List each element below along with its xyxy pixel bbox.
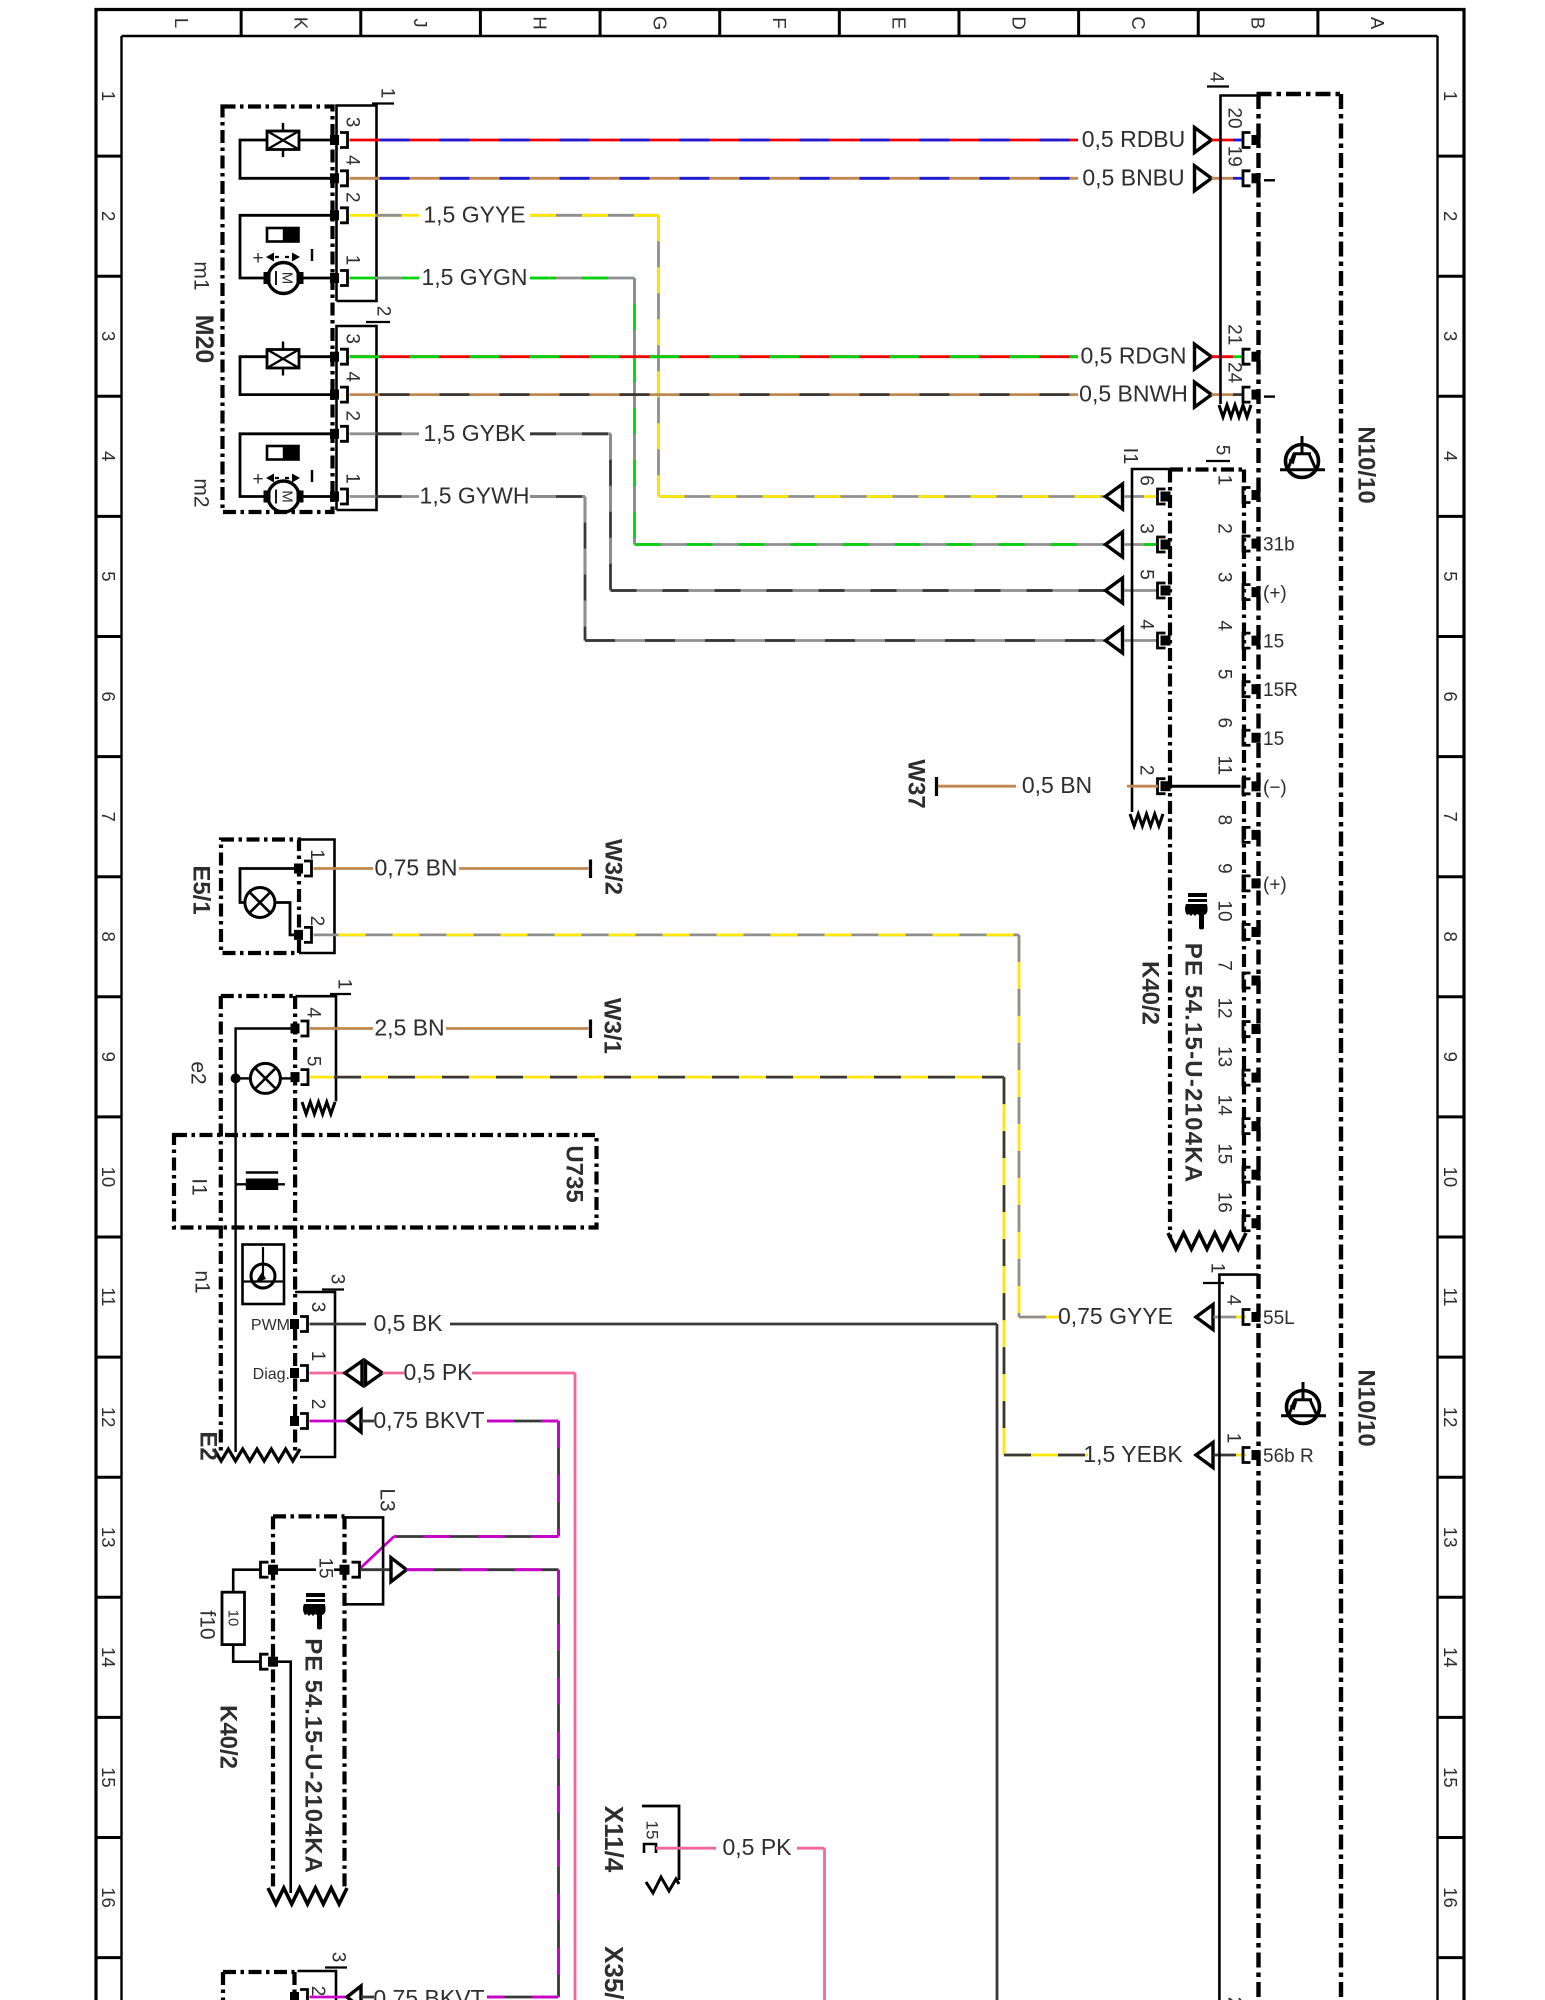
svg-text:I1: I1 [1119, 448, 1141, 465]
N10/10 pin 20 contact [1252, 135, 1261, 145]
svg-text:16: 16 [98, 1887, 119, 1908]
wire 0,5 RDBU from M20.1 pin3 to N10/10 pin20 [350, 139, 1079, 142]
N10/10 component box top edge [1257, 92, 1344, 96]
N10/10 pin 55L contact [1252, 1312, 1261, 1322]
svg-text:L3: L3 [376, 1488, 399, 1511]
M20 pin 4 contact at y=394.6 [330, 390, 339, 400]
svg-text:8: 8 [1440, 932, 1461, 942]
X11/4 connector symbol [642, 1806, 679, 1880]
svg-text:X11/4: X11/4 [599, 1806, 629, 1873]
svg-text:19: 19 [1224, 146, 1245, 167]
border column divider 9 [1197, 10, 1200, 37]
svg-text:0,5 RDBU: 0,5 RDBU [1082, 126, 1186, 152]
border column divider 4 [599, 10, 602, 37]
I1 pin 3 contact [1161, 540, 1171, 550]
n1 regulator housing [243, 1245, 285, 1305]
svg-text:1,5 GYGN: 1,5 GYGN [421, 264, 527, 290]
M20 pin 3 contact at y=356.7 [330, 352, 339, 362]
wire 0,75 BKVT continuation from L3 pin15 down to heater unit [360, 1568, 391, 1571]
border row divider 15 [96, 1836, 122, 1839]
I1 pin 5 contact [1161, 586, 1171, 596]
ground point W3/1 terminal [589, 1020, 592, 1039]
K40/2 pin 10 contact to N10/10 [1252, 927, 1261, 937]
N10/10 connector 1 housing (lower) [1219, 1275, 1258, 2000]
L3 connector housing [345, 1517, 384, 1604]
svg-text:H: H [530, 16, 551, 29]
svg-text:9: 9 [98, 1052, 119, 1062]
svg-text:Diag.: Diag. [253, 1366, 290, 1383]
K40/2 pin 5 contact to N10/10 [1252, 684, 1261, 694]
junction node at e2 lamp [231, 1073, 241, 1083]
border column divider 8 [1077, 10, 1080, 37]
border row divider 3 [96, 395, 122, 398]
connector 4 number [1207, 85, 1229, 87]
I1 torn end [1130, 814, 1163, 826]
svg-text:m1: m1 [190, 261, 213, 290]
e2 lamp symbol [250, 1063, 280, 1093]
wire 0,5 PK from E2 Diag pin [310, 1372, 346, 1375]
svg-text:4: 4 [303, 1007, 324, 1018]
svg-text:0,75 BN: 0,75 BN [374, 855, 457, 881]
connector 4 torn end [1219, 405, 1251, 417]
M20 pin 3 contact at y=140 [330, 135, 339, 145]
svg-text:E2: E2 [195, 1431, 222, 1460]
svg-text:(+): (+) [1263, 583, 1287, 604]
svg-text:11: 11 [1440, 1287, 1461, 1306]
svg-text:55L: 55L [1263, 1308, 1295, 1329]
diagnostic double arrow [345, 1361, 362, 1385]
svg-text:14: 14 [98, 1647, 119, 1668]
wire 1,5 GYWH from M20.2 pin1 to I1 pin4 [350, 495, 420, 498]
partial pin 2 contact [290, 1992, 299, 2000]
svg-text:n1: n1 [191, 1270, 214, 1293]
svg-text:0,5 BNWH: 0,5 BNWH [1079, 381, 1188, 407]
svg-text:4: 4 [1206, 72, 1227, 83]
wire 0,5 BNBU from M20.1 pin4 to N10/10 pin19 [350, 177, 1079, 180]
border column divider 2 [359, 10, 362, 37]
K40/2 (right) connector 5 number [1206, 460, 1230, 462]
partial connector housing [298, 1971, 337, 2000]
svg-text:2: 2 [1136, 765, 1157, 776]
svg-text:J: J [410, 18, 431, 27]
m1 heater element (X box) [267, 131, 299, 150]
svg-text:10: 10 [1214, 900, 1235, 921]
svg-text:1: 1 [1223, 1433, 1244, 1444]
svg-text:PE 54.15-U-2104KA: PE 54.15-U-2104KA [300, 1638, 327, 1873]
svg-text:e2: e2 [187, 1061, 210, 1084]
connector block I1 housing [1132, 469, 1170, 812]
I1 pin 6 contact [1161, 492, 1171, 502]
svg-text:14: 14 [1214, 1095, 1235, 1117]
svg-text:3: 3 [1136, 523, 1157, 534]
K40/2 pin 3 contact to N10/10 [1252, 587, 1261, 597]
svg-text:8: 8 [98, 932, 119, 942]
border column divider 1 [240, 10, 243, 37]
E2 pin 3 contact [290, 1319, 299, 1329]
svg-text:7: 7 [1214, 960, 1235, 971]
svg-text:10: 10 [225, 1610, 242, 1627]
svg-text:1: 1 [1207, 1263, 1228, 1274]
ground point W3/2 terminal [589, 860, 592, 879]
svg-text:W3/1: W3/1 [599, 998, 626, 1054]
svg-text:5: 5 [1136, 569, 1157, 580]
N10/10 component box left edge [1256, 94, 1260, 2000]
border row divider 7 [96, 875, 122, 878]
e2 pin 4 contact [291, 1024, 300, 1034]
ground wire W37 terminal [935, 777, 938, 796]
E5/1 lamp symbol [245, 888, 275, 918]
svg-text:M20: M20 [190, 315, 218, 364]
wire 0,75 BN from E5/1 pin1 to W3/2 [314, 867, 374, 870]
K40/2 pin 14 contact to N10/10 [1252, 1121, 1261, 1131]
N10/10 pin 56b contact [1252, 1450, 1261, 1460]
svg-text:1: 1 [342, 255, 363, 266]
svg-text:1: 1 [377, 88, 398, 99]
svg-text:m2: m2 [190, 478, 213, 507]
vertical supply wire inside E2 [234, 1078, 236, 1452]
E2 connector 3 housing [295, 1292, 335, 1457]
svg-text:I1: I1 [188, 1178, 211, 1196]
fuse wiring [233, 1570, 260, 1593]
svg-text:N10/10: N10/10 [1353, 1369, 1380, 1446]
partial connector number 3 [325, 1966, 347, 1968]
N10/10 transistor symbol (upper) [1286, 445, 1319, 478]
svg-text:15R: 15R [1263, 680, 1298, 701]
K40/2 pin 13 contact to N10/10 [1252, 1073, 1261, 1083]
svg-text:15: 15 [315, 1557, 336, 1578]
border row divider 1 [96, 155, 122, 158]
E2 connector number 3 [322, 1288, 344, 1290]
wire 1,5 GYYE from M20.1 pin2 to I1 pin6 [350, 214, 420, 217]
svg-text:2: 2 [1440, 211, 1461, 221]
wire 0,5 PK from X11/4 [656, 1847, 716, 1850]
partial wire 0,75 BKVT [310, 1996, 348, 1999]
e2 connector torn end [302, 1102, 335, 1114]
svg-text:3: 3 [1214, 572, 1235, 583]
svg-text:X35/9: X35/9 [599, 1946, 629, 2000]
E2 dash-dot component box [221, 994, 295, 998]
svg-text:2: 2 [1214, 523, 1235, 534]
svg-text:10: 10 [1440, 1167, 1461, 1188]
svg-text:24: 24 [1224, 362, 1245, 384]
svg-text:0,5 BNBU: 0,5 BNBU [1082, 164, 1184, 190]
svg-text:3: 3 [307, 1302, 328, 1313]
N10/10 transistor symbol (lower) [1287, 1391, 1320, 1424]
svg-text:21: 21 [1224, 324, 1245, 345]
K40/2 pin 8 contact to N10/10 [1252, 830, 1261, 840]
svg-text:2: 2 [307, 1986, 328, 1997]
svg-text:2: 2 [342, 411, 363, 422]
svg-text:PWM: PWM [251, 1317, 290, 1334]
I1 pin 4 contact [1161, 636, 1171, 646]
border column divider 3 [479, 10, 482, 37]
E5/1 dash-dot component box [221, 840, 299, 954]
svg-text:7: 7 [98, 811, 119, 821]
inline connector I1 symbol [236, 1183, 285, 1185]
svg-text:2,5 BN: 2,5 BN [374, 1015, 444, 1041]
svg-text:56b R: 56b R [1263, 1446, 1314, 1467]
svg-text:1,5 GYWH: 1,5 GYWH [420, 483, 530, 509]
K40/2 pin 7 contact to N10/10 [1252, 976, 1261, 986]
K40/2 (left) torn bottom edge [268, 1888, 347, 1904]
border row divider 10 [96, 1236, 122, 1239]
svg-text:N10/10: N10/10 [1353, 426, 1380, 503]
svg-text:4: 4 [98, 451, 119, 461]
E5/1 connector housing [299, 840, 335, 954]
svg-text:(+): (+) [1263, 874, 1287, 895]
svg-text:5: 5 [1212, 445, 1233, 456]
connector 2 number [366, 321, 390, 323]
K40/2 pin 16 contact to N10/10 [1252, 1218, 1261, 1228]
svg-text:2: 2 [98, 211, 119, 221]
internal link I1 pin2 to K40/2 pin11 [1170, 785, 1241, 788]
border row divider 2 [96, 275, 122, 278]
e2 internal wiring [236, 1077, 251, 1079]
internal feed inside K40/2 (left) [278, 1662, 291, 1893]
outer border frame [94, 8, 97, 2000]
svg-text:1: 1 [306, 849, 327, 860]
svg-text:F: F [769, 17, 790, 28]
svg-text:1,5 GYBK: 1,5 GYBK [423, 420, 526, 446]
wire 0,5 BN from W37 to I1 pin2 [938, 785, 1016, 788]
svg-text:PE 54.15-U-2104KA: PE 54.15-U-2104KA [1180, 943, 1207, 1184]
svg-text:15: 15 [1440, 1767, 1461, 1788]
svg-text:5: 5 [98, 571, 119, 581]
M20 pin 2 contact at y=215.3 [330, 210, 339, 220]
n1 regulator symbol [251, 1264, 275, 1288]
svg-text:1: 1 [342, 473, 363, 484]
svg-text:+: + [252, 248, 263, 269]
svg-text:C: C [1128, 16, 1149, 29]
svg-text:W37: W37 [903, 759, 930, 808]
svg-text:7: 7 [1440, 811, 1461, 821]
M20 connector 1 housing [337, 106, 377, 302]
svg-text:12: 12 [98, 1407, 119, 1428]
border row divider 9 [96, 1115, 122, 1118]
svg-text:1,5 GYYE: 1,5 GYYE [423, 201, 525, 227]
fuse f10 [222, 1592, 245, 1644]
see-note hand symbol (left) [303, 1593, 326, 1630]
heater blower motors M20 dash-dot component box [223, 107, 333, 513]
svg-text:0,75 GYYE: 0,75 GYYE [1058, 1303, 1173, 1329]
m2 heater element (X box) [267, 350, 299, 369]
svg-text:8: 8 [1214, 815, 1235, 826]
m2 position indicator [267, 446, 299, 460]
svg-text:9: 9 [1440, 1052, 1461, 1062]
svg-text:6: 6 [1136, 475, 1157, 486]
K40/2 terminal 15 pin to L3 [340, 1565, 350, 1575]
svg-text:16: 16 [1440, 1887, 1461, 1908]
I1 pin 2 contact [1161, 781, 1171, 791]
svg-text:9: 9 [1214, 863, 1235, 874]
svg-text:M: M [279, 490, 296, 503]
m2 motor [268, 481, 299, 512]
svg-text:+: + [252, 469, 263, 490]
m2 element wiring to pins 3/4 [299, 355, 331, 358]
wire 0,5 RDGN from M20.2 pin3 to N10/10 pin21 [350, 355, 1079, 358]
svg-text:13: 13 [1440, 1527, 1461, 1548]
E5/1 pin 1 contact [294, 864, 303, 874]
E5/1 pin 2 contact [294, 930, 303, 940]
svg-text:14: 14 [1440, 1647, 1461, 1668]
partial component box at page bottom [223, 1970, 295, 1974]
svg-text:1: 1 [334, 979, 355, 990]
border row divider 8 [96, 995, 122, 998]
svg-text:0,5 PK: 0,5 PK [403, 1359, 473, 1385]
svg-text:6: 6 [98, 691, 119, 701]
svg-text:5: 5 [1214, 669, 1235, 680]
svg-text:15: 15 [98, 1767, 119, 1788]
N10/10 connector 4 housing [1221, 96, 1259, 405]
N10/10 component box right edge [1339, 94, 1343, 2000]
K40/2 (right) dash-dot component box [1170, 467, 1244, 471]
U735 dash-dot component box [174, 1135, 597, 1228]
svg-text:2: 2 [342, 192, 363, 203]
svg-text:A: A [1367, 17, 1388, 30]
m2 motor wiring to pins 2/1 [240, 434, 331, 497]
K40/2 (right) torn bottom edge [1168, 1233, 1246, 1249]
border column divider 5 [718, 10, 721, 37]
N10/10 pin 19 contact [1252, 173, 1261, 183]
svg-text:3: 3 [342, 333, 363, 344]
svg-text:5: 5 [303, 1056, 324, 1067]
border row divider 12 [96, 1476, 122, 1479]
svg-text:G: G [649, 16, 670, 30]
svg-text:0,75 BKVT: 0,75 BKVT [373, 1985, 484, 2000]
see-note hand symbol (right) [1185, 893, 1208, 930]
border row divider 13 [96, 1596, 122, 1599]
svg-text:L: L [171, 18, 192, 28]
e2 pin 5 contact [291, 1072, 300, 1082]
svg-text:20: 20 [1224, 107, 1245, 128]
e2 connector number 1 [330, 993, 351, 995]
K40/2 pin 4 contact to N10/10 [1252, 636, 1261, 646]
svg-text:D: D [1008, 16, 1029, 29]
svg-text:3: 3 [327, 1274, 348, 1285]
wire 0,5 BNWH from M20.2 pin4 to N10/10 pin24 [350, 393, 1079, 396]
svg-text:15: 15 [1263, 729, 1284, 750]
wire 1,5 GYGN from M20.1 pin1 to I1 pin3 [350, 277, 420, 280]
N10/10 pin 21 contact [1252, 352, 1261, 362]
svg-text:12: 12 [1440, 1407, 1461, 1428]
E2 pin 2 contact [290, 1416, 299, 1426]
K40/2 (left) dash-dot component box [273, 1514, 345, 1518]
connector 1 number (lower) [1203, 1282, 1224, 1284]
svg-text:4: 4 [342, 371, 363, 382]
wire 2,5 BN from e2 pin4 to W3/1 [310, 1027, 373, 1030]
K40/2 fuse feed pins on left edge [268, 1565, 278, 1575]
svg-text:4: 4 [342, 155, 363, 166]
K40/2 pin 11 contact to N10/10 [1252, 781, 1261, 791]
K40/2 pin 6 contact to N10/10 [1252, 733, 1261, 743]
svg-text:E5/1: E5/1 [188, 865, 215, 914]
m1 position indicator [267, 228, 299, 242]
border column divider 6 [838, 10, 841, 37]
terminal 15 line + label [278, 1568, 340, 1571]
wire 1,5 GYBK from M20.2 pin2 to I1 pin5 [350, 432, 420, 435]
m1 motor wiring to pins 2/1 [240, 215, 331, 278]
svg-text:13: 13 [98, 1527, 119, 1548]
svg-text:1: 1 [1214, 475, 1235, 486]
svg-text:2: 2 [373, 306, 394, 317]
K40/2 pin 2 contact to N10/10 [1252, 539, 1261, 549]
svg-text:5: 5 [1440, 571, 1461, 581]
svg-text:0,5 RDGN: 0,5 RDGN [1080, 343, 1186, 369]
svg-text:K: K [290, 17, 311, 30]
svg-text:4: 4 [1223, 1295, 1244, 1306]
svg-text:0,75 BKVT: 0,75 BKVT [373, 1407, 484, 1433]
svg-text:K40/2: K40/2 [215, 1705, 242, 1769]
svg-text:B: B [1248, 17, 1269, 29]
inner frame lines [122, 35, 1438, 37]
svg-text:2: 2 [306, 916, 327, 927]
svg-text:1: 1 [307, 1351, 328, 1362]
svg-text:0,5 BK: 0,5 BK [373, 1310, 443, 1336]
wire 0,75 GYYE from E5/1 pin2 to N10/10 pin 55L [314, 934, 1020, 937]
svg-text:15: 15 [1263, 632, 1284, 653]
svg-text:4: 4 [1440, 451, 1461, 461]
K40/2 pin 9 contact to N10/10 [1252, 878, 1261, 888]
border column divider 10 [1316, 10, 1319, 37]
svg-text:3: 3 [342, 117, 363, 128]
border row divider 11 [96, 1356, 122, 1359]
svg-text:6: 6 [1214, 717, 1235, 728]
m1 element wiring to pins 3/4 [299, 139, 331, 142]
M20 pin 2 contact at y=433.8 [330, 429, 339, 439]
svg-text:3: 3 [98, 331, 119, 341]
border row divider 4 [96, 515, 122, 518]
svg-text:12: 12 [1214, 997, 1235, 1018]
X11/4 pin contact [644, 1844, 656, 1853]
svg-text:1,5 YEBK: 1,5 YEBK [1083, 1441, 1183, 1467]
e2 connector housing [296, 996, 336, 1101]
svg-text:3: 3 [328, 1952, 349, 1963]
svg-text:3: 3 [1440, 331, 1461, 341]
border column divider 7 [957, 10, 960, 37]
M20 pin 1 contact at y=496.5 [330, 492, 339, 502]
E5/1 internal wiring [240, 869, 298, 903]
svg-text:(−): (−) [1263, 777, 1287, 798]
E2 pin 1 contact [290, 1368, 299, 1378]
svg-text:W3/2: W3/2 [600, 839, 627, 895]
svg-text:11: 11 [98, 1287, 119, 1306]
svg-text:0,5 PK: 0,5 PK [722, 1834, 792, 1860]
svg-text:f10: f10 [196, 1610, 219, 1639]
svg-text:M: M [279, 272, 296, 285]
svg-text:31b: 31b [1263, 535, 1295, 556]
svg-text:4: 4 [1136, 619, 1157, 630]
svg-text:11: 11 [1214, 755, 1235, 775]
svg-text:U735: U735 [561, 1145, 588, 1202]
svg-text:0,5 BN: 0,5 BN [1022, 772, 1092, 798]
K40/2 pin 1 contact to N10/10 [1252, 490, 1261, 500]
wire 0,5 BK from E2 PWM pin [310, 1323, 367, 1326]
svg-text:15: 15 [643, 1821, 662, 1840]
border row divider 5 [96, 635, 122, 638]
svg-text:15: 15 [1214, 1143, 1235, 1164]
svg-text:10: 10 [98, 1167, 119, 1188]
border row divider 16 [96, 1956, 122, 1959]
N10/10 pin 24 contact [1252, 390, 1261, 400]
K40/2 pin 15 contact to N10/10 [1252, 1170, 1261, 1180]
wire 1,5 YEBK from e2 pin5 to N10/10 pin 56b [310, 1076, 1004, 1079]
M20 connector 2 housing [337, 326, 377, 510]
M20 pin 4 contact at y=178.3 [330, 173, 339, 183]
K40/2 pin 12 contact to N10/10 [1252, 1024, 1261, 1034]
M20 pin 1 contact at y=278 [330, 273, 339, 283]
svg-text:1: 1 [98, 91, 119, 101]
svg-text:13: 13 [1214, 1046, 1235, 1067]
